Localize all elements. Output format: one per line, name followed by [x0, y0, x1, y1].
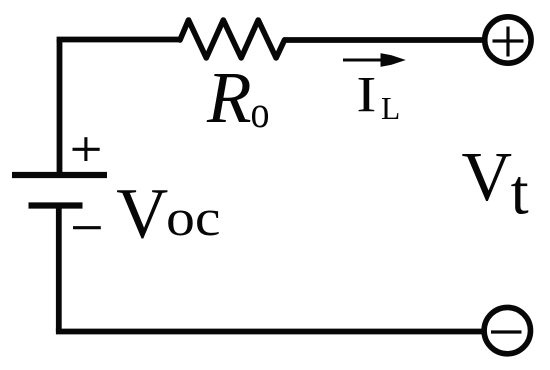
svg-text:I: I	[356, 68, 376, 124]
label IL	[356, 68, 400, 127]
label Voc	[116, 174, 220, 254]
wire top-left vertical	[57, 40, 63, 176]
wire bottom horizontal	[56, 329, 483, 335]
svg-text:o: o	[251, 86, 270, 137]
wire bottom-left vertical	[56, 206, 62, 332]
wire top horizontal left	[57, 37, 181, 43]
battery Voc	[12, 175, 107, 206]
terminal - (bottom right)	[484, 307, 530, 353]
svg-text:R: R	[206, 57, 252, 138]
svg-text:oc: oc	[166, 190, 221, 247]
svg-text:V: V	[116, 174, 168, 254]
wire top horizontal right	[284, 37, 484, 43]
short plate	[29, 202, 83, 208]
svg-text:t: t	[511, 157, 529, 229]
current arrow IL	[343, 53, 406, 67]
label Vt	[462, 139, 529, 229]
svg-text:L: L	[381, 91, 400, 126]
label Ro	[206, 57, 270, 138]
terminal + (top right)	[485, 17, 531, 63]
svg-text:V: V	[462, 139, 513, 216]
battery plus sign	[73, 137, 100, 161]
battery minus sign	[73, 226, 101, 229]
resistor Ro	[180, 20, 285, 58]
long plate	[12, 172, 107, 178]
